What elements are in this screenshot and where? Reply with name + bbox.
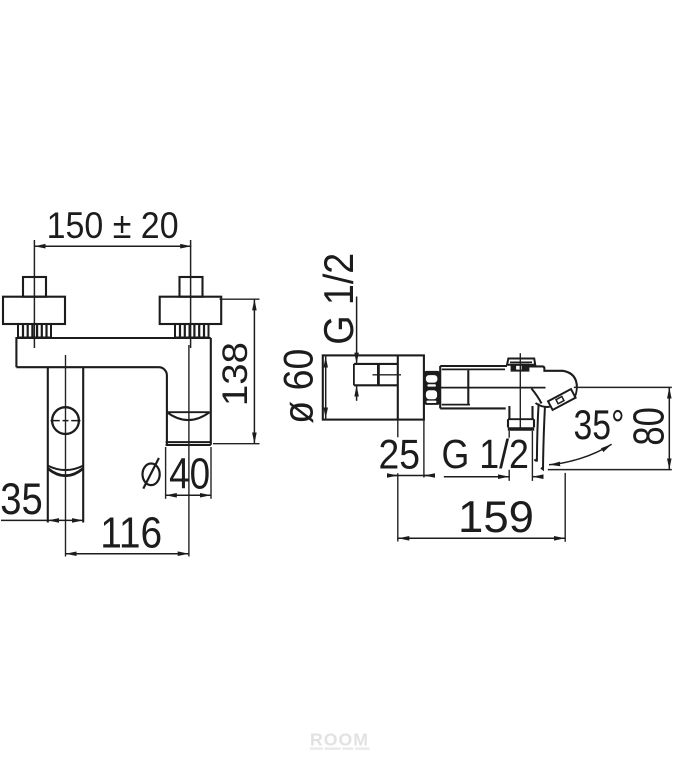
dimension 116 line bbox=[66, 553, 189, 555]
right inlet square bbox=[180, 277, 203, 297]
dimension ø60 text bbox=[274, 349, 321, 424]
dimension ø40 line bbox=[166, 494, 211, 496]
svg-text:25: 25 bbox=[379, 430, 421, 477]
svg-text:G 1/2: G 1/2 bbox=[315, 253, 362, 345]
check valve cap bbox=[507, 359, 535, 371]
inlet pipe centerline bbox=[373, 374, 402, 376]
dimension G1/2 top text bbox=[315, 253, 362, 345]
dimension 116 text bbox=[100, 509, 162, 558]
right ribbed connector bbox=[175, 324, 209, 338]
cartridge housing bbox=[440, 366, 507, 408]
aerator face (35° outlet) bbox=[548, 389, 576, 410]
wall flange outline bbox=[323, 355, 424, 419]
dimension ø40 text bbox=[143, 450, 211, 499]
left cylinder bottom arcs bbox=[48, 466, 83, 476]
spout meniscus arc (front) bbox=[167, 412, 210, 420]
G1/2 bottom extension lines bbox=[509, 431, 532, 481]
svg-text:150 ± 20: 150 ± 20 bbox=[47, 205, 179, 246]
handle hole circle bbox=[51, 407, 81, 434]
right mounting centerline bbox=[190, 240, 192, 348]
svg-text:80: 80 bbox=[625, 407, 674, 446]
dimension ø60 line bbox=[325, 357, 327, 419]
body axis midline bbox=[424, 387, 546, 389]
svg-text:G 1/2: G 1/2 bbox=[441, 431, 529, 477]
dimension 80 text bbox=[625, 407, 674, 446]
wall line extension below flange bbox=[397, 420, 399, 542]
body top edge to spout bbox=[528, 366, 577, 387]
spout centerline (front) bbox=[188, 345, 190, 557]
dimension 138 line bbox=[253, 299, 255, 444]
watermark ROOM logo bbox=[310, 730, 370, 750]
dimension G1/2 bottom line bbox=[444, 476, 541, 478]
dimension 25 text bbox=[379, 430, 421, 477]
dimension 159 text bbox=[458, 493, 534, 542]
svg-text:138: 138 bbox=[216, 342, 255, 406]
check valve centerline bbox=[519, 353, 521, 430]
flange face divider bbox=[397, 355, 399, 419]
dimension 138 text bbox=[216, 342, 255, 406]
right mounting block bbox=[160, 297, 222, 324]
159 right extension line bbox=[564, 473, 566, 542]
pivot extension line (35°/80 top) bbox=[574, 386, 672, 388]
left mounting block bbox=[3, 297, 65, 324]
left cylinder centerline bbox=[65, 355, 67, 557]
svg-text:40: 40 bbox=[169, 450, 210, 499]
dimension 159 line bbox=[398, 537, 565, 539]
left mounting centerline bbox=[33, 240, 35, 348]
left inlet square bbox=[23, 277, 46, 297]
mixer body bar outline bbox=[16, 338, 210, 445]
dimension 80 line bbox=[668, 387, 670, 469]
dimension ø40 extension lines bbox=[166, 447, 211, 499]
svg-text:35: 35 bbox=[0, 475, 43, 524]
dimension 35 line bbox=[1, 519, 83, 521]
dimension 150 ± 20 line bbox=[34, 245, 191, 247]
svg-text:ø 60: ø 60 bbox=[274, 349, 321, 424]
svg-text:159: 159 bbox=[458, 493, 534, 542]
svg-text:ROOM: ROOM bbox=[310, 730, 369, 750]
dimension G1/2 top leader lines bbox=[356, 297, 358, 401]
body face extension below bbox=[423, 420, 425, 478]
dimension 35 text bbox=[0, 475, 43, 524]
svg-text:116: 116 bbox=[100, 509, 162, 558]
dimension 150 ± 20 text bbox=[47, 205, 179, 246]
svg-text:35°: 35° bbox=[574, 401, 625, 448]
inlet pipe G1/2 (side) bbox=[354, 364, 397, 385]
left ribbed connector bbox=[18, 324, 51, 338]
35° angle arc bbox=[549, 444, 612, 465]
shower outlet stub bbox=[508, 406, 534, 429]
dimension 138 extension lines bbox=[213, 299, 260, 444]
spout bottom cap (front) bbox=[166, 442, 211, 445]
dimension 35° text bbox=[574, 401, 625, 448]
dimension 25 line bbox=[389, 475, 434, 477]
left cylinder walls bbox=[48, 367, 83, 522]
dimension G1/2 bottom text bbox=[441, 431, 529, 477]
spout lip front edge bbox=[534, 404, 545, 470]
outlet level extension line (80 bottom) bbox=[548, 469, 672, 471]
spout throat curves bbox=[532, 389, 550, 407]
hex nut bbox=[424, 371, 439, 405]
